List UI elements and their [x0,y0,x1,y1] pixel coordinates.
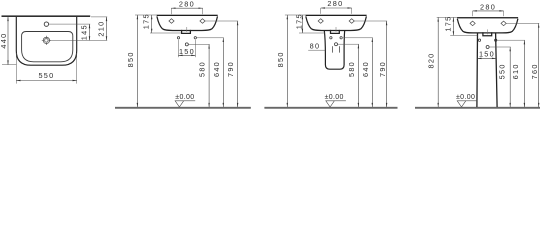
floor panel 2 [115,107,251,109]
drain outer circle (top view) [43,37,50,44]
svg-text:580: 580 [347,61,356,77]
dimension 820 line p4 [437,17,439,107]
svg-text:760: 760 [530,63,539,79]
floor panel 3 [264,107,397,109]
svg-text:550: 550 [38,71,54,80]
right bolt hole [194,37,196,39]
diamond leader p4 [506,22,539,24]
drain collar p3 [331,30,340,34]
drain centerline p2 [186,27,188,32]
svg-text:175: 175 [443,16,452,32]
dimension 175 line p4 [452,17,454,35]
dimension 790 line p3 [386,21,388,107]
svg-text:280: 280 [480,2,496,11]
svg-text:175: 175 [142,13,151,29]
dimension 550 line [16,80,76,82]
full pedestal p4 [477,33,497,107]
dimension 640 line p3 [371,38,373,107]
leader faucet hole [49,23,90,25]
bolt hole leader p2 [197,37,224,39]
dimension 790 line p2 [237,21,239,107]
basin body profile (front view) [157,16,218,30]
drain cross ticks [42,36,51,45]
basin body p4 [457,19,518,33]
svg-text:175: 175 [294,13,303,29]
half pedestal p3 [324,31,344,70]
svg-text:280: 280 [327,0,343,8]
right bolt hole p3 [340,37,342,39]
diamond leader p2 [205,20,238,22]
dimension 150 line p4 [477,57,496,59]
svg-text:790: 790 [226,61,235,77]
dimension 580 line p3 [357,44,359,107]
drain hole front [185,43,188,46]
left bolt hole p3 [330,37,332,39]
dimension 210 line [106,17,108,41]
dimension 610 line p4 [523,40,525,107]
extension 550 right [76,53,78,84]
dimension 175 line p2 [151,15,153,33]
bolt hole leader p3 [343,37,373,39]
right bolt hole p4 [495,39,497,41]
rim leader p2 [135,14,157,16]
dimension 850 line p3 [286,15,288,107]
rim leader p3 [285,14,306,16]
drain centerline p4 [487,29,489,34]
drain leader p3 [338,43,359,45]
dimension 760 line p4 [538,23,540,107]
dimension 150 line p2 [178,54,195,56]
dimension 580 line p2 [208,44,210,107]
bolt hole leader p4 [497,39,525,41]
svg-text:150: 150 [479,49,495,58]
left fixing diamond p4 [470,21,475,26]
washbasin inner bowl (top view) [22,32,73,62]
svg-text:850: 850 [276,51,285,67]
svg-text:850: 850 [126,51,135,67]
svg-text:550: 550 [498,63,507,79]
svg-text:580: 580 [198,61,207,77]
dimension 550 line p4 [509,47,511,107]
diamond leader p3 [354,20,387,22]
svg-text:±0.00: ±0.00 [456,94,475,101]
svg-text:145: 145 [80,24,89,40]
wall line (top view, panel 1) [2,15,91,17]
175 bottom extension p2 [150,32,181,34]
svg-text:790: 790 [378,61,387,77]
leader drain [50,39,107,41]
basin rim (front view) [157,15,218,16]
dimension 440 line [7,17,9,65]
svg-text:±0.00: ±0.00 [325,94,344,101]
basin rim p4 [457,17,518,18]
dimension 850 line p2 [136,15,138,107]
dimension 175 line p3 [301,15,303,33]
175 bottom extension p3 [299,32,325,34]
basin rim p3 [306,15,367,16]
dimension 280 line p3 [321,7,352,9]
drain centerline p3 [335,27,337,32]
svg-text:640: 640 [212,61,221,77]
datum triangle p2 [175,101,184,107]
faucet hole (top view) [44,22,48,26]
dimension 280 line p2 [171,7,202,9]
trap pipe p3 [333,46,340,52]
rim leader p4 [437,16,458,18]
left fixing diamond [169,19,174,24]
right fixing diamond [200,19,205,24]
drain inner circle [45,39,48,42]
175 bottom extension p4 [450,34,477,36]
right fixing diamond p4 [501,21,506,26]
extension 440 bottom [2,64,17,66]
drain hole p3 [335,43,338,46]
datum triangle p3 [326,101,335,107]
left bolt hole p4 [478,39,480,41]
svg-text:820: 820 [427,52,436,68]
drain collar p4 [483,32,492,36]
svg-text:280: 280 [179,0,195,9]
svg-text:640: 640 [361,61,370,77]
dimension 280 line p4 [473,10,504,12]
svg-text:610: 610 [511,63,520,79]
dimension 640 line p2 [222,38,224,107]
svg-text:80: 80 [310,42,321,51]
washbasin outer rim (top view) [16,17,76,65]
svg-text:150: 150 [179,47,195,56]
leader wall top [91,16,107,18]
left bolt hole [177,37,179,39]
left fixing diamond p3 [318,19,323,24]
drain leader p2 [189,43,210,45]
150 extensions p2 [177,40,179,57]
drain collar below basin [182,30,191,34]
extension 550 left [15,53,17,84]
svg-text:440: 440 [0,33,8,49]
80 leader p3 [308,49,325,51]
floor panel 4 [415,107,540,109]
basin body p3 [306,16,367,30]
drain leader p4 [489,46,510,48]
dimension 145 line [89,24,91,40]
drain hole p4 [486,46,489,49]
svg-text:210: 210 [96,21,105,37]
svg-text:±0.00: ±0.00 [175,94,194,101]
right fixing diamond p3 [349,19,354,24]
datum triangle p4 [457,101,466,107]
